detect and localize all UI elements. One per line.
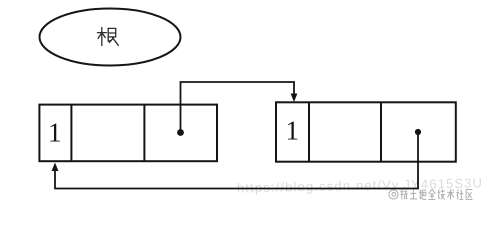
svg-text:1: 1: [286, 116, 300, 146]
svg-text:1: 1: [48, 118, 62, 148]
